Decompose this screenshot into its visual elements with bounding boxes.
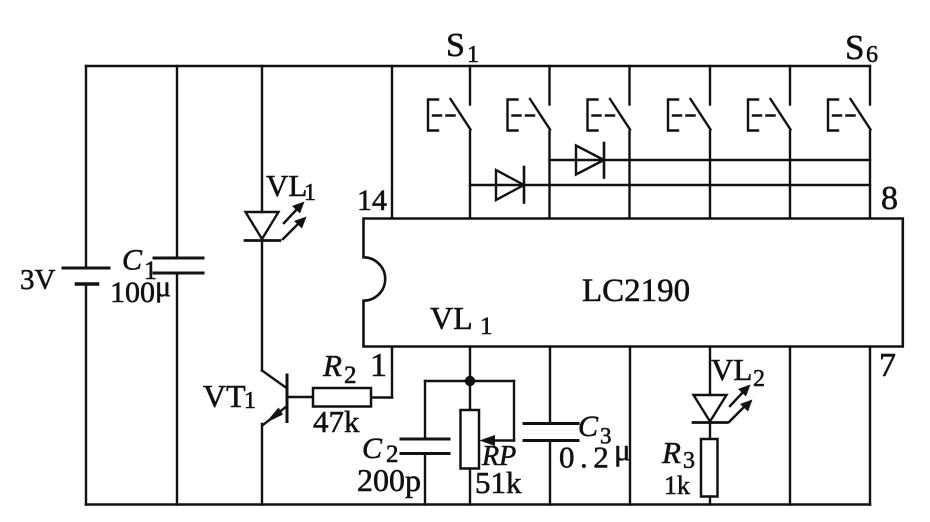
svg-text:1k: 1k (664, 471, 690, 500)
svg-text:8: 8 (881, 180, 898, 217)
svg-text:VL: VL (266, 168, 307, 203)
svg-text:200p: 200p (357, 462, 421, 498)
svg-text:0.2: 0.2 (559, 440, 614, 475)
svg-text:S: S (446, 27, 465, 64)
svg-text:100: 100 (110, 276, 155, 309)
svg-text:1: 1 (467, 42, 479, 68)
svg-text:2: 2 (344, 362, 357, 389)
svg-text:1: 1 (480, 313, 493, 340)
svg-text:47k: 47k (313, 404, 360, 439)
svg-text:7: 7 (879, 347, 896, 384)
svg-text:LC2190: LC2190 (582, 273, 690, 309)
svg-text:C: C (122, 244, 143, 277)
svg-text:C: C (578, 410, 599, 443)
svg-text:14: 14 (357, 184, 387, 217)
svg-text:R: R (322, 348, 342, 383)
svg-text:VL: VL (430, 300, 473, 336)
svg-text:6: 6 (866, 42, 878, 68)
svg-text:S: S (845, 28, 864, 67)
svg-text:μ: μ (614, 432, 631, 467)
svg-text:1: 1 (244, 388, 256, 414)
svg-text:1: 1 (370, 347, 387, 384)
svg-text:2: 2 (753, 366, 765, 392)
svg-text:VT: VT (203, 378, 246, 414)
svg-text:1: 1 (304, 180, 316, 206)
svg-text:R: R (661, 435, 681, 470)
svg-text:VL: VL (711, 352, 752, 387)
svg-text:3V: 3V (20, 264, 56, 296)
svg-text:C: C (362, 432, 383, 465)
svg-text:51k: 51k (475, 465, 522, 500)
svg-text:μ: μ (155, 270, 171, 303)
